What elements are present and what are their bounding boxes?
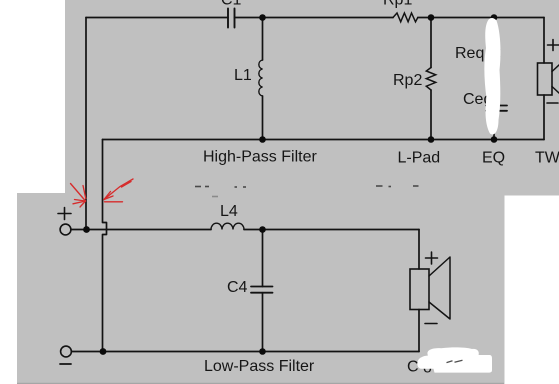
junction node Rp1/Rp2 on top rail xyxy=(428,14,435,21)
EQ branch top lead xyxy=(493,18,495,43)
white-out mark over EQ components xyxy=(484,18,500,134)
wire: top rail Rp1 to tweeter corner xyxy=(418,17,544,19)
svg-text:L1: L1 xyxy=(234,67,252,84)
wire: woofer top drop xyxy=(418,230,420,270)
wire: + terminal to junction xyxy=(71,229,87,231)
capacitor Ceq plates xyxy=(486,106,507,111)
annotation red arrow right xyxy=(104,179,133,202)
white-out mark over woofer caption xyxy=(417,347,492,372)
erased text dash remnants xyxy=(195,186,419,197)
svg-text:High-Pass Filter: High-Pass Filter xyxy=(203,149,317,166)
junction node Rp2 bottom xyxy=(428,136,435,143)
junction node EQ top xyxy=(491,14,498,21)
wire: tweeter top drop xyxy=(543,18,545,64)
wire: + rail to L4 xyxy=(87,229,211,231)
inductor L1 coil xyxy=(259,60,263,96)
screenshot bottom edge shading xyxy=(17,382,504,384)
dark remnant strokes inside white-out xyxy=(447,360,463,362)
resistor Rp1 zigzag xyxy=(393,13,418,22)
inductor L4 coil xyxy=(211,223,244,229)
svg-text:C1: C1 xyxy=(221,0,242,9)
svg-text:Rp2: Rp2 xyxy=(393,72,422,89)
input - terminal circle xyxy=(61,346,72,357)
capacitor C1 plates xyxy=(228,9,235,28)
capacitor C4 plates xyxy=(251,287,273,293)
woofer body rectangle xyxy=(410,269,429,310)
EQ branch bottom lead xyxy=(493,111,495,140)
junction node - rail left xyxy=(100,348,107,355)
junction node + input xyxy=(83,226,90,233)
tweeter plus sign xyxy=(548,40,559,51)
wire: high-pass bottom left corner drop with crossover jog xyxy=(103,140,107,352)
input plus sign xyxy=(58,208,71,220)
svg-text:EQ: EQ xyxy=(482,150,505,167)
woofer cone xyxy=(429,257,450,319)
tweeter minus sign xyxy=(547,102,558,104)
wire: tweeter bottom lead xyxy=(543,95,545,140)
background upper gray panel xyxy=(65,0,559,196)
svg-text:TW: TW xyxy=(535,150,559,167)
resistor Req zigzag (hidden by white-out) xyxy=(489,42,498,65)
junction node L1 bottom xyxy=(259,136,266,143)
woofer plus sign xyxy=(426,252,438,264)
resistor Rp2 top lead xyxy=(430,18,432,68)
wire: L4 to woofer corner xyxy=(244,229,419,231)
capacitor C4 top lead xyxy=(262,230,264,287)
resistor Rp2 zigzag xyxy=(426,68,435,91)
wire: top rail left segment xyxy=(86,17,228,19)
tweeter TW body rectangle xyxy=(538,63,553,95)
junction node L4/C4 xyxy=(259,226,266,233)
svg-text:Rp1: Rp1 xyxy=(383,0,412,9)
capacitor C4 bottom lead xyxy=(262,293,264,352)
input minus sign xyxy=(60,363,71,365)
junction node EQ bottom xyxy=(491,136,498,143)
svg-text:Low-Pass Filter: Low-Pass Filter xyxy=(204,358,315,375)
wire: top rail C1 to Rp1 xyxy=(235,17,394,19)
inductor L1 bottom lead xyxy=(262,96,264,140)
wire: EQ middle lead xyxy=(493,65,495,106)
svg-text:L4: L4 xyxy=(220,203,238,220)
annotation red arrow left xyxy=(71,184,86,208)
svg-text:L-Pad: L-Pad xyxy=(398,150,441,167)
wire: left feed vertical (top rail to + node) xyxy=(85,18,87,230)
wire: woofer bottom lead xyxy=(418,310,420,352)
input + terminal circle xyxy=(60,224,71,235)
junction node C4 bottom xyxy=(259,348,266,355)
inductor L1 top lead xyxy=(262,18,264,61)
tweeter TW cone xyxy=(552,59,559,100)
wire: high-pass bottom rail xyxy=(103,139,545,141)
wire: - rail xyxy=(72,351,420,353)
junction node C1/L1 on top rail xyxy=(259,14,266,21)
woofer minus sign xyxy=(425,323,437,325)
svg-text:C: C xyxy=(407,359,419,376)
svg-text:Req: Req xyxy=(455,45,484,62)
resistor Rp2 bottom lead xyxy=(430,90,432,140)
svg-text:C4: C4 xyxy=(227,279,248,296)
background lower gray panel xyxy=(17,193,505,384)
